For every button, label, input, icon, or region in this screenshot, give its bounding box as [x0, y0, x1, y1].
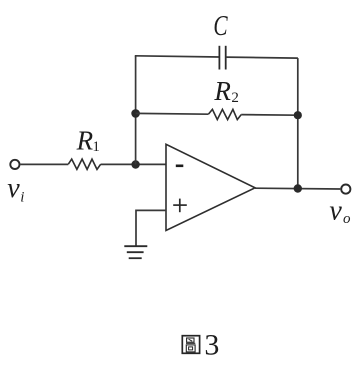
input terminal (vi)	[10, 160, 19, 169]
resistor R1	[68, 159, 100, 169]
node B (left feedback junction)	[131, 109, 140, 118]
wire: R2 to right node	[241, 114, 298, 117]
svg-text:v: v	[329, 196, 342, 227]
ground	[124, 246, 147, 258]
resistor R2	[209, 109, 242, 119]
op-amp U1	[166, 144, 255, 230]
caption glyph 圖 (drawn)	[182, 336, 199, 354]
output terminal (vo)	[341, 185, 350, 194]
svg-text:3: 3	[204, 328, 219, 361]
wire: R1 to inverting node and op-amp	[101, 163, 166, 165]
wire: op-amp output to output terminal	[255, 187, 340, 190]
node A (inverting input junction)	[131, 160, 139, 168]
capacitor C	[219, 46, 225, 70]
op-amp plus sign	[173, 199, 187, 213]
wire: node B to R2	[136, 112, 209, 115]
wire: capacitor to top right corner	[226, 57, 298, 58]
svg-text:v: v	[7, 173, 20, 204]
node D (output junction)	[294, 184, 302, 192]
svg-text:C: C	[213, 11, 227, 42]
svg-text:R: R	[76, 126, 94, 156]
op-amp minus sign	[176, 165, 184, 168]
svg-text:R: R	[213, 76, 231, 106]
wire: input terminal to R1	[21, 163, 69, 165]
node C (right feedback junction)	[294, 111, 302, 119]
wire: non-inverting input to ground drop	[136, 210, 166, 246]
wire: top left segment to capacitor	[135, 56, 220, 57]
svg-text:2: 2	[231, 90, 239, 106]
wire: right vertical (top corner to output node)	[297, 58, 299, 188]
svg-text:i: i	[20, 190, 24, 206]
wire: node A up to node B and top corner	[135, 56, 137, 165]
svg-text:o: o	[343, 211, 351, 227]
svg-text:1: 1	[92, 139, 100, 155]
